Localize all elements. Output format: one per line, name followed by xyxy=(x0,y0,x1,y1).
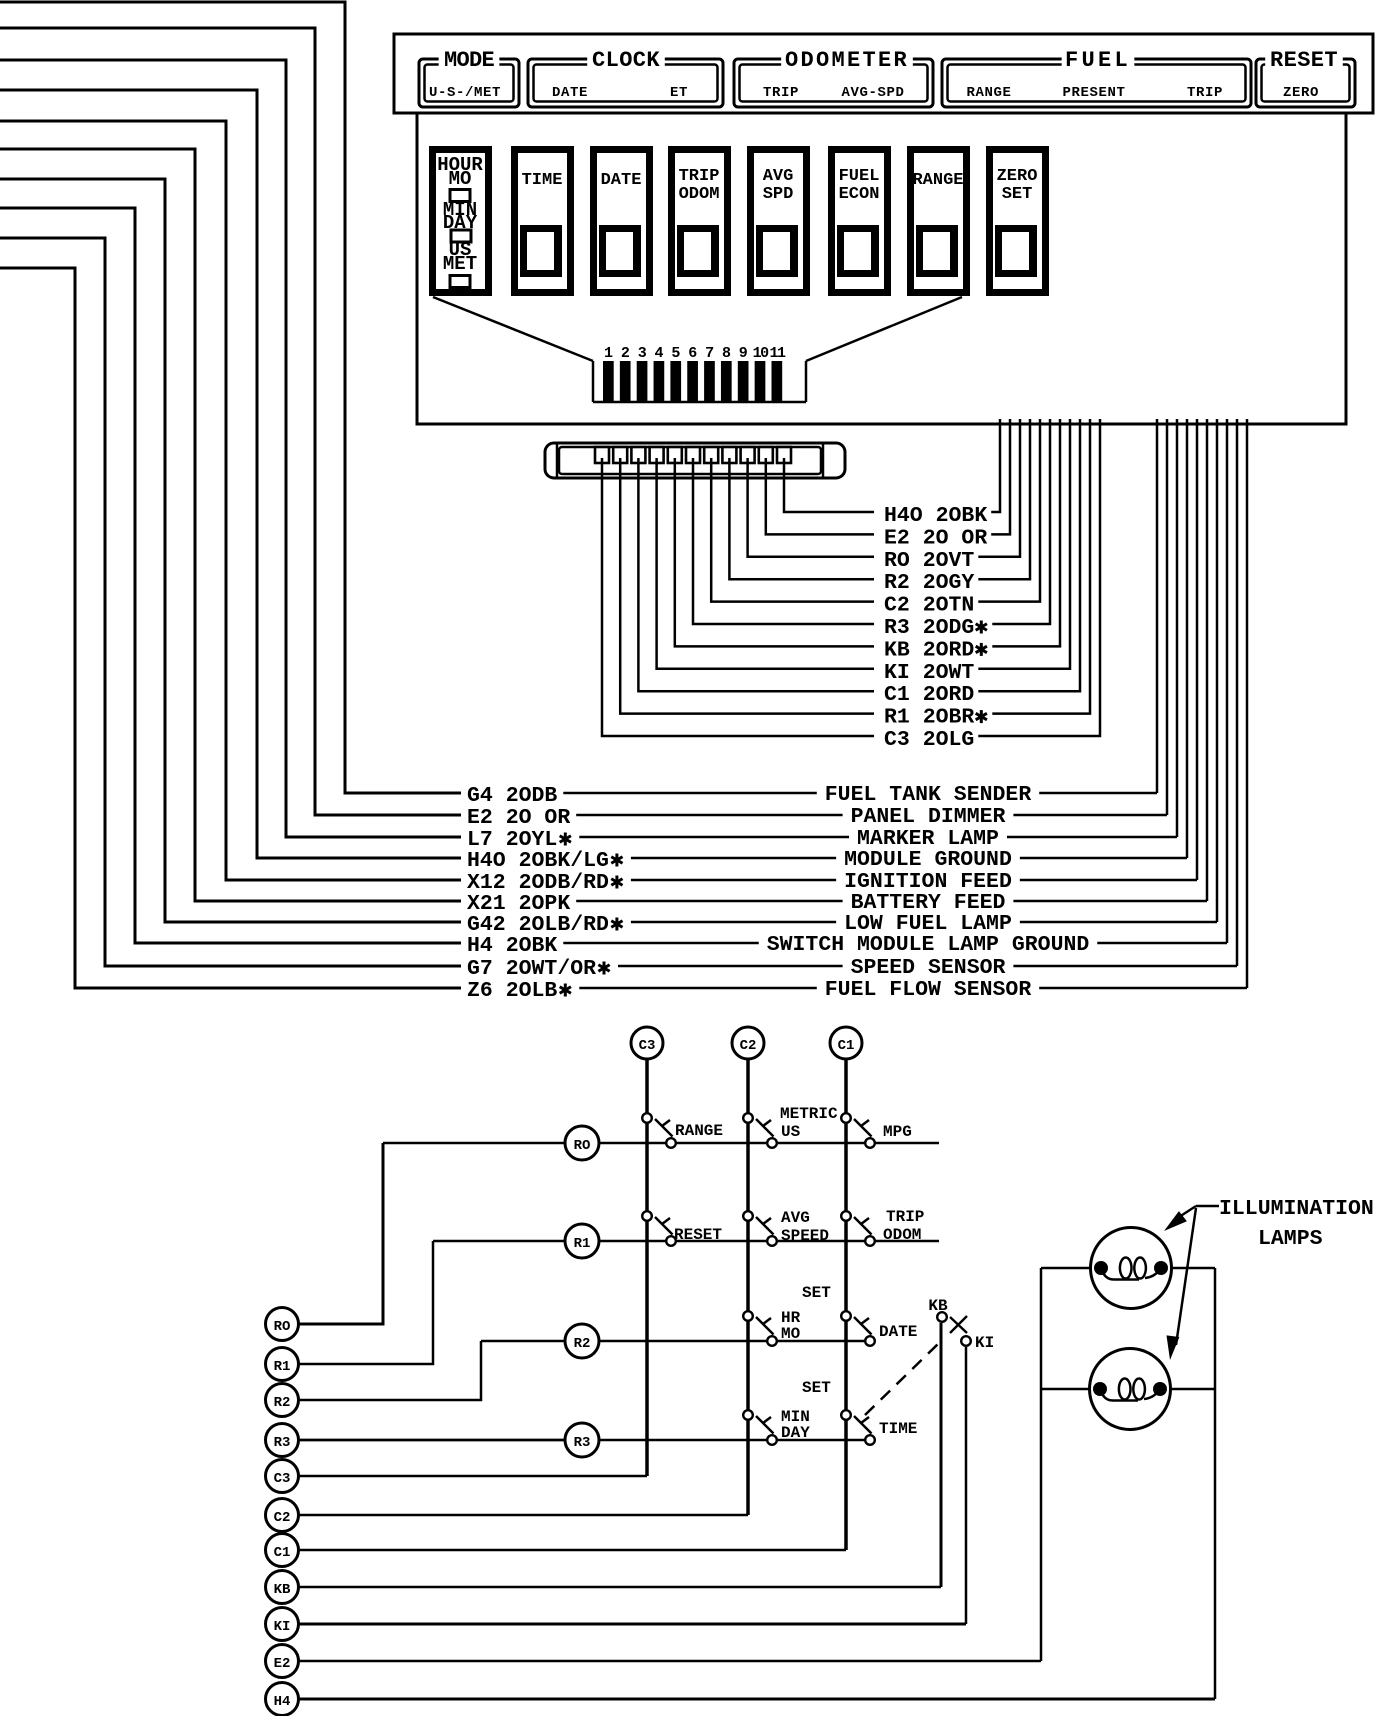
wire H4 20BK to SWITCH MODULE LAMP GROUND xyxy=(563,942,758,945)
lamp circuit left riser xyxy=(1040,1268,1043,1661)
lamp circuit right riser xyxy=(1214,1268,1217,1699)
node C2 xyxy=(732,1027,764,1059)
wire L7 20YL to MARKER LAMP xyxy=(579,836,849,839)
mechanical link dashed xyxy=(865,1342,940,1415)
terminal C1 xyxy=(266,1534,299,1567)
illumination lamp upper xyxy=(1041,1267,1101,1270)
inline connector housing xyxy=(545,443,845,478)
wire R1 20BR module drop xyxy=(992,419,1090,714)
wire C1 column xyxy=(844,1059,848,1550)
wire H40 20BK module drop xyxy=(991,419,1000,512)
switch TIME xyxy=(841,1410,851,1420)
wire MODULE GROUND module drop xyxy=(1186,419,1189,858)
svg-text:ECON: ECON xyxy=(839,185,880,204)
wire BATTERY FEED module drop xyxy=(1206,419,1209,901)
svg-text:C3: C3 xyxy=(274,1471,291,1487)
svg-text:R2 2OGY: R2 2OGY xyxy=(884,571,974,595)
wire terminal R2 xyxy=(298,1341,481,1400)
wire IGNITION FEED module drop xyxy=(1196,419,1199,880)
wire terminal R1 xyxy=(298,1241,433,1364)
wire C1 20RD module drop xyxy=(978,419,1080,691)
node R1 row xyxy=(565,1224,599,1258)
svg-text:U-S-/MET: U-S-/MET xyxy=(429,85,501,101)
rocker switch module AVG/SPD xyxy=(751,150,807,293)
wire G7 20WT/OR to SPEED SENSOR xyxy=(618,965,843,968)
wire terminal C1 xyxy=(298,1549,846,1552)
wire MARKER LAMP module drop xyxy=(1176,419,1179,837)
svg-text:SET: SET xyxy=(1002,185,1033,204)
svg-text:MODE: MODE xyxy=(444,48,495,73)
svg-text:FUEL TANK SENDER: FUEL TANK SENDER xyxy=(825,783,1032,807)
svg-text:2: 2 xyxy=(621,345,630,362)
svg-text:E2 2O OR: E2 2O OR xyxy=(884,526,987,550)
wire R2 20GY module drop xyxy=(978,419,1030,579)
svg-text:6: 6 xyxy=(688,345,697,362)
svg-text:R2: R2 xyxy=(574,1336,591,1352)
svg-text:FUEL FLOW SENSOR: FUEL FLOW SENSOR xyxy=(825,978,1032,1002)
wire terminal KB xyxy=(298,1586,941,1589)
wire KB 20RD connector pin 5 xyxy=(675,458,874,646)
svg-text:10: 10 xyxy=(753,345,770,362)
switch TRIP ODOM xyxy=(841,1211,851,1221)
svg-text:11: 11 xyxy=(769,345,786,362)
svg-text:KI 2OWT: KI 2OWT xyxy=(884,661,974,685)
switch RESET xyxy=(642,1211,652,1221)
wire X21 20PK to BATTERY FEED xyxy=(576,900,842,903)
svg-text:KB 2ORD: KB 2ORD xyxy=(884,638,974,662)
svg-text:RESET: RESET xyxy=(1270,48,1338,73)
wire H40 20BK/LG feed from harness xyxy=(0,90,461,858)
wire G4 20DB feed from harness xyxy=(0,2,461,793)
switch MIN/DAY SET xyxy=(743,1410,753,1420)
button group box MODE xyxy=(419,59,519,107)
terminal RO xyxy=(266,1308,299,1341)
rocker switch module ZERO/SET xyxy=(990,150,1046,293)
svg-text:PANEL DIMMER: PANEL DIMMER xyxy=(851,805,1006,829)
svg-text:RO: RO xyxy=(274,1319,291,1335)
node C3 xyxy=(631,1027,663,1059)
svg-text:TRIP: TRIP xyxy=(1187,85,1223,101)
wire row R3 xyxy=(299,1439,565,1442)
wire R3 20DG connector pin 6 xyxy=(693,458,874,624)
svg-text:ODOM: ODOM xyxy=(883,1226,921,1244)
svg-text:ILLUMINATION: ILLUMINATION xyxy=(1219,1197,1374,1221)
wire R1 20BR connector pin 2 xyxy=(620,458,874,714)
terminal R1 xyxy=(266,1348,299,1381)
svg-text:LAMPS: LAMPS xyxy=(1258,1227,1323,1251)
svg-text:KB: KB xyxy=(274,1582,291,1598)
svg-text:METRIC: METRIC xyxy=(780,1105,838,1123)
svg-text:MET: MET xyxy=(443,253,477,275)
svg-text:ODOM: ODOM xyxy=(679,185,720,204)
wire SPEED SENSOR module drop xyxy=(1236,419,1239,966)
wire G42 20LB/RD feed from harness xyxy=(0,179,461,922)
terminal KB xyxy=(266,1571,299,1604)
node R3 row xyxy=(565,1423,599,1457)
svg-text:E2: E2 xyxy=(274,1656,291,1672)
rocker switch module TIME xyxy=(515,150,571,293)
svg-text:AVG-SPD: AVG-SPD xyxy=(841,85,904,101)
wire terminal H4 xyxy=(298,1698,1215,1701)
wire terminal C2 xyxy=(298,1514,748,1517)
rocker switch module TRIP/ODOM xyxy=(672,150,728,293)
wire G42 20LB/RD to LOW FUEL LAMP xyxy=(631,921,836,924)
switch module body outline xyxy=(417,113,1346,424)
svg-text:TRIP: TRIP xyxy=(886,1208,924,1226)
svg-text:5: 5 xyxy=(671,345,680,362)
terminal KI xyxy=(266,1608,299,1641)
switch DATE xyxy=(841,1311,851,1321)
svg-text:RANGE: RANGE xyxy=(675,1122,723,1140)
wire X12 20DB/RD feed from harness xyxy=(0,121,461,880)
terminal C2 xyxy=(266,1499,299,1532)
svg-text:US: US xyxy=(781,1123,801,1141)
wire C3 20LG connector pin 1 xyxy=(602,458,874,736)
rocker switch module RANGE xyxy=(911,150,967,293)
svg-text:MPG: MPG xyxy=(883,1123,912,1141)
button group box RESET xyxy=(1256,59,1355,107)
wire Z6 20LB feed from harness xyxy=(0,268,461,988)
svg-text:MO: MO xyxy=(449,168,472,190)
rocker switch module DATE xyxy=(594,150,650,293)
wire LOW FUEL LAMP module drop xyxy=(1216,419,1219,922)
svg-text:DATE: DATE xyxy=(879,1323,917,1341)
svg-text:8: 8 xyxy=(722,345,731,362)
svg-text:ZERO: ZERO xyxy=(997,167,1038,186)
svg-text:C1 2ORD: C1 2ORD xyxy=(884,683,974,707)
svg-text:R2: R2 xyxy=(274,1395,291,1411)
switch module faceplate panel xyxy=(394,34,1373,113)
wire C3 column xyxy=(645,1059,649,1476)
svg-text:SET: SET xyxy=(802,1284,831,1302)
svg-text:FUEL: FUEL xyxy=(839,167,880,186)
wire H40 20BK/LG to MODULE GROUND xyxy=(631,857,836,860)
wire E2 20 OR feed from harness xyxy=(0,28,461,815)
svg-text:DATE: DATE xyxy=(601,171,642,190)
edge connector pins 1-11 xyxy=(603,361,614,401)
svg-text:C1: C1 xyxy=(838,1038,855,1054)
wire X12 20DB/RD to IGNITION FEED xyxy=(631,879,836,882)
svg-text:H4: H4 xyxy=(274,1694,291,1710)
button group box FUEL xyxy=(942,59,1251,107)
wire E2 20 OR to PANEL DIMMER xyxy=(576,814,842,817)
svg-text:C2: C2 xyxy=(274,1510,291,1526)
wire L7 20YL feed from harness xyxy=(0,60,461,837)
wire row R1 xyxy=(433,1240,565,1243)
wire KB drop xyxy=(940,1323,943,1587)
wire E2 20 OR module drop xyxy=(991,419,1010,534)
terminal R2 xyxy=(266,1384,299,1417)
svg-text:H4 2OBK: H4 2OBK xyxy=(467,934,557,958)
svg-text:TIME: TIME xyxy=(879,1420,917,1438)
svg-text:MODULE GROUND: MODULE GROUND xyxy=(844,848,1012,872)
leader arrows to lamps xyxy=(1196,1205,1219,1208)
node C1 xyxy=(830,1027,862,1059)
wire G7 20WT/OR feed from harness xyxy=(0,238,461,966)
svg-text:G4 2ODB: G4 2ODB xyxy=(467,784,557,808)
svg-text:4: 4 xyxy=(655,345,664,362)
svg-text:R1 2OBR: R1 2OBR xyxy=(884,706,974,730)
wire terminal R3 xyxy=(298,1439,565,1442)
svg-text:9: 9 xyxy=(739,345,748,362)
wire R2 20GY connector pin 8 xyxy=(729,458,874,579)
node R2 row xyxy=(565,1324,599,1358)
wire KI 20WT module drop xyxy=(978,419,1070,669)
svg-text:PRESENT: PRESENT xyxy=(1062,85,1125,101)
svg-text:C2: C2 xyxy=(740,1038,757,1054)
svg-text:RO: RO xyxy=(574,1138,591,1154)
rocker switch module HOUR.. xyxy=(433,150,489,293)
pin fan-out slants xyxy=(433,297,593,361)
svg-text:R3: R3 xyxy=(574,1435,591,1451)
wire Z6 20LB to FUEL FLOW SENSOR xyxy=(579,987,817,990)
node RO row xyxy=(565,1126,599,1160)
svg-text:CLOCK: CLOCK xyxy=(592,48,660,73)
svg-text:7: 7 xyxy=(705,345,714,362)
wire X21 20PK feed from harness xyxy=(0,149,461,901)
svg-text:H4O 2OBK/LG: H4O 2OBK/LG xyxy=(467,849,609,873)
wire R3 20DG module drop xyxy=(992,419,1050,624)
svg-text:3: 3 xyxy=(638,345,647,362)
svg-text:SPEED: SPEED xyxy=(781,1227,829,1245)
wire row RO xyxy=(383,1142,565,1145)
svg-text:1: 1 xyxy=(604,345,613,362)
svg-text:DATE: DATE xyxy=(552,85,588,101)
svg-text:RANGE: RANGE xyxy=(966,85,1011,101)
svg-text:AVG: AVG xyxy=(781,1209,810,1227)
svg-text:DAY: DAY xyxy=(781,1424,810,1442)
wire terminal RO xyxy=(298,1143,383,1324)
svg-text:C3 2OLG: C3 2OLG xyxy=(884,728,974,752)
svg-text:SWITCH MODULE LAMP GROUND: SWITCH MODULE LAMP GROUND xyxy=(767,933,1090,957)
switch METRIC/US xyxy=(743,1113,753,1123)
terminal R3 xyxy=(266,1424,299,1457)
svg-text:ET: ET xyxy=(670,85,688,101)
svg-text:Z6 2OLB: Z6 2OLB xyxy=(467,979,557,1003)
wire C2 20TN module drop xyxy=(978,419,1040,602)
wire KI drop xyxy=(965,1347,968,1624)
wire RO 20VT connector pin 9 xyxy=(748,458,874,557)
terminal C3 xyxy=(266,1460,299,1493)
wire FUEL TANK SENDER module drop xyxy=(1156,419,1159,793)
wire SWITCH MODULE LAMP GROUND module drop xyxy=(1226,419,1229,943)
switch AVG SPEED xyxy=(743,1211,753,1221)
svg-text:C2 2OTN: C2 2OTN xyxy=(884,594,974,618)
svg-text:R1: R1 xyxy=(574,1236,591,1252)
svg-text:C3: C3 xyxy=(639,1038,656,1054)
svg-text:TIME: TIME xyxy=(522,171,563,190)
switch MPG xyxy=(841,1113,851,1123)
svg-text:G7 2OWT/OR: G7 2OWT/OR xyxy=(467,957,596,981)
switch HR/MO SET xyxy=(743,1311,753,1321)
svg-text:H4O 2OBK: H4O 2OBK xyxy=(884,504,987,528)
svg-text:TRIP: TRIP xyxy=(763,85,799,101)
switch RANGE xyxy=(642,1113,652,1123)
svg-text:TRIP: TRIP xyxy=(679,167,720,186)
svg-text:R1: R1 xyxy=(274,1359,291,1375)
wire terminal C3 xyxy=(298,1475,647,1478)
svg-text:SET: SET xyxy=(802,1379,831,1397)
illumination lamp lower xyxy=(1041,1388,1100,1391)
svg-text:MO: MO xyxy=(781,1325,801,1343)
wire KI 20WT connector pin 4 xyxy=(657,458,874,669)
svg-text:ZERO: ZERO xyxy=(1283,85,1319,101)
wire H4 20BK feed from harness xyxy=(0,208,461,943)
svg-text:AVG: AVG xyxy=(763,167,794,186)
wire RO 20VT module drop xyxy=(978,419,1020,557)
wire FUEL FLOW SENSOR module drop xyxy=(1246,419,1249,988)
wire C3 20LG module drop xyxy=(978,419,1100,736)
wire H40 20BK connector pin 11 xyxy=(784,458,874,512)
svg-text:FUEL: FUEL xyxy=(1065,48,1131,73)
rocker switch module FUEL/ECON xyxy=(832,150,888,293)
terminal H4 xyxy=(266,1683,299,1716)
wire C1 20RD connector pin 3 xyxy=(638,458,874,691)
wire PANEL DIMMER module drop xyxy=(1166,419,1169,815)
wire KB 20RD module drop xyxy=(992,419,1060,646)
svg-text:RANGE: RANGE xyxy=(912,171,963,190)
wire C2 20TN connector pin 7 xyxy=(711,458,874,602)
svg-text:RESET: RESET xyxy=(674,1226,722,1244)
svg-text:R3 2ODG: R3 2ODG xyxy=(884,616,974,640)
svg-text:KI: KI xyxy=(975,1334,994,1352)
svg-text:R3: R3 xyxy=(274,1435,291,1451)
terminal E2 xyxy=(266,1645,299,1678)
button group box CLOCK xyxy=(528,59,723,107)
svg-text:ODOMETER: ODOMETER xyxy=(785,48,909,73)
wire terminal KI xyxy=(298,1623,966,1626)
svg-text:C1: C1 xyxy=(274,1545,291,1561)
wire row R2 xyxy=(481,1340,565,1343)
wire G4 20DB to FUEL TANK SENDER xyxy=(563,792,817,795)
button group box ODOMETER xyxy=(734,59,933,107)
wire C2 column xyxy=(746,1059,750,1515)
svg-text:SPD: SPD xyxy=(763,185,794,204)
svg-text:SPEED SENSOR: SPEED SENSOR xyxy=(851,956,1006,980)
svg-text:KI: KI xyxy=(274,1619,291,1635)
svg-text:E2 2O OR: E2 2O OR xyxy=(467,806,570,830)
svg-text:RO 2OVT: RO 2OVT xyxy=(884,549,974,573)
wire E2 20 OR connector pin 10 xyxy=(766,458,874,534)
wire terminal E2 xyxy=(298,1660,1041,1663)
